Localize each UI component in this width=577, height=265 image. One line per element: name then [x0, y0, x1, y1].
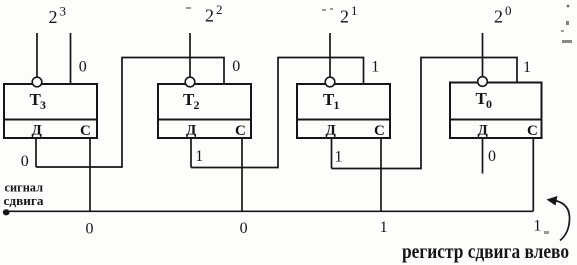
svg-text:0: 0	[240, 220, 248, 237]
shift signal source dot	[3, 209, 10, 215]
label: сигнал сдвига	[4, 180, 45, 208]
shift signal bus wire	[6, 210, 533, 212]
svg-text:1: 1	[335, 149, 343, 166]
svg-text:1: 1	[380, 219, 388, 236]
wire T2 D input pin	[190, 138, 192, 168]
inversion bubble on T0 output	[478, 77, 488, 87]
wire T0 D serial input pin	[482, 138, 484, 174]
svg-text:2: 2	[340, 7, 349, 27]
wire T3 C input pin	[89, 138, 91, 211]
wire T2 inverted output up to 2^2	[189, 33, 191, 77]
svg-text:С: С	[235, 123, 246, 139]
wire T3 D input pin	[35, 138, 37, 167]
wire T0 inverted output up to 2^0	[482, 33, 484, 77]
svg-text:0: 0	[505, 3, 512, 18]
svg-text:0: 0	[486, 97, 492, 111]
svg-text:1: 1	[371, 59, 379, 76]
svg-text:сдвига: сдвига	[4, 193, 45, 208]
svg-text:С: С	[527, 123, 538, 139]
svg-text:Д: Д	[478, 123, 489, 139]
svg-text:2: 2	[194, 98, 200, 112]
label 2^1	[340, 3, 358, 27]
label 2^3	[49, 3, 67, 27]
svg-text:2: 2	[49, 7, 58, 27]
svg-text:0: 0	[232, 58, 240, 75]
svg-text:С: С	[374, 123, 385, 139]
wire T1 D input pin	[331, 138, 333, 169]
wire T1 output to T2 D input	[191, 58, 364, 168]
flip-flop T3	[4, 84, 97, 139]
svg-text:3: 3	[60, 3, 67, 18]
flip-flop T0	[450, 83, 542, 140]
wire T1 C input pin	[380, 138, 382, 211]
svg-text:2: 2	[205, 6, 214, 26]
svg-text:С: С	[80, 123, 91, 139]
shift direction curved arrow	[547, 196, 570, 241]
label 2^0	[494, 3, 512, 27]
svg-text:1: 1	[533, 218, 541, 235]
inversion bubble on T3 output	[32, 77, 42, 87]
svg-text:регистр сдвига влево: регистр сдвига влево	[402, 241, 569, 263]
svg-text:Д: Д	[32, 123, 43, 139]
svg-text:2: 2	[216, 2, 223, 17]
wire T2 C input pin	[241, 138, 243, 211]
flip-flop T2	[158, 84, 251, 139]
wire T3 inverted output up to 2^3	[36, 33, 38, 77]
inversion bubble on T2 output	[185, 77, 195, 87]
svg-text:1: 1	[523, 59, 531, 76]
svg-text:1: 1	[195, 148, 203, 165]
svg-text:1: 1	[334, 98, 340, 112]
wire T2 output to T3 D input	[36, 58, 224, 168]
svg-text:Д: Д	[186, 123, 197, 139]
svg-text:0: 0	[21, 153, 29, 170]
inversion bubble on T1 output	[325, 77, 335, 87]
svg-text:Д: Д	[326, 123, 337, 139]
wire T0 output to T1 D input	[332, 58, 518, 169]
wire T1 inverted output up to 2^1	[329, 33, 331, 77]
wire T0 C input pin	[532, 138, 534, 211]
svg-text:1: 1	[351, 3, 358, 18]
flip-flop T1	[297, 84, 390, 139]
svg-text:3: 3	[40, 98, 46, 112]
svg-text:0: 0	[79, 59, 87, 76]
label 2^2	[205, 2, 223, 26]
svg-text:0: 0	[86, 221, 94, 238]
wire T3 serial output up	[70, 33, 72, 84]
svg-text:0: 0	[488, 148, 496, 165]
svg-text:2: 2	[494, 7, 503, 27]
